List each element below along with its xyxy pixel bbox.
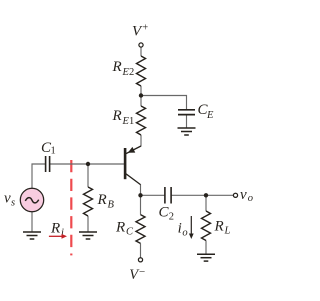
- svg-text:o: o: [248, 193, 253, 204]
- resistor RE2: [137, 56, 146, 86]
- wire RE2 to node: [140, 86, 142, 96]
- svg-text:R: R: [112, 108, 122, 124]
- label Ri: [50, 221, 64, 239]
- svg-text:R: R: [97, 192, 107, 208]
- label vs: [4, 191, 15, 209]
- resistor RC: [136, 215, 145, 244]
- resistor RE1: [137, 106, 146, 135]
- svg-text:E: E: [206, 110, 214, 121]
- wire node to vo terminal: [206, 194, 233, 196]
- svg-text:V: V: [132, 24, 143, 40]
- wire node to RL: [205, 195, 207, 211]
- capacitor C2: [165, 187, 171, 204]
- label vo: [240, 187, 253, 204]
- node junction C2/RL/vo: [204, 193, 208, 197]
- node junction RE2/RE1/CE: [139, 93, 143, 97]
- wire collector node to RC: [140, 195, 142, 214]
- label C1: [41, 140, 56, 157]
- svg-text:2: 2: [129, 67, 134, 78]
- svg-text:R: R: [112, 59, 122, 75]
- label V+: [132, 23, 149, 40]
- label io: [178, 221, 188, 239]
- wire RE1 to emitter: [140, 135, 142, 146]
- label RE1: [112, 108, 135, 127]
- transistor Q1 emitter lead: [126, 146, 141, 154]
- svg-text:1: 1: [129, 116, 134, 127]
- svg-text:B: B: [108, 200, 115, 211]
- sine wave in source: [25, 198, 38, 203]
- ground (RB): [79, 232, 97, 239]
- svg-text:2: 2: [169, 211, 174, 222]
- capacitor CE: [178, 110, 195, 115]
- label V-: [129, 266, 145, 283]
- terminal V-: [138, 258, 142, 262]
- wire collector to node: [140, 184, 142, 195]
- svg-text:−: −: [139, 266, 145, 278]
- svg-text:R: R: [214, 218, 224, 234]
- label RB: [97, 192, 115, 211]
- transistor Q1 base bar: [124, 148, 127, 179]
- io arrow: [190, 216, 192, 235]
- wire source to C1: [32, 164, 45, 188]
- svg-text:i: i: [178, 221, 182, 237]
- svg-text:o: o: [182, 228, 187, 239]
- ground (RL): [197, 254, 215, 261]
- svg-text:L: L: [224, 225, 231, 236]
- svg-text:v: v: [4, 191, 11, 207]
- ground (vs): [23, 232, 41, 239]
- wire RB to ground: [87, 216, 89, 232]
- resistor RB: [84, 187, 93, 216]
- svg-text:1: 1: [51, 145, 56, 156]
- node junction collector/RC/C2: [138, 193, 142, 197]
- svg-text:s: s: [11, 198, 15, 209]
- svg-text:C: C: [126, 226, 134, 237]
- node junction base/RB: [86, 162, 90, 166]
- capacitor C1: [46, 156, 50, 172]
- resistor RL: [202, 211, 211, 241]
- label C2: [159, 205, 175, 223]
- Ri boundary dashed line: [70, 160, 72, 255]
- wire node to RE1: [140, 96, 142, 107]
- wire collector node to C2: [141, 194, 165, 196]
- wire node to RB: [87, 164, 89, 187]
- source vs: [20, 188, 43, 211]
- wire RC to V- terminal: [140, 243, 142, 257]
- svg-text:v: v: [240, 187, 247, 203]
- wire C2 to output node: [171, 194, 206, 196]
- label RL: [214, 218, 231, 236]
- wire vs to ground: [31, 212, 33, 232]
- svg-text:R: R: [115, 219, 125, 235]
- label RC: [115, 219, 134, 237]
- wire node to CE: [141, 96, 187, 110]
- label RE2: [112, 59, 135, 78]
- wire RL to ground: [205, 241, 207, 255]
- terminal vo: [233, 193, 237, 197]
- svg-text:R: R: [50, 221, 60, 237]
- wire V+ to RE2: [140, 47, 142, 56]
- transistor Q1 collector lead: [126, 174, 141, 185]
- emitter arrow (PNP): [128, 147, 136, 153]
- wire CE to ground: [186, 115, 188, 128]
- label CE: [198, 102, 215, 121]
- base wire: [50, 163, 124, 165]
- svg-text:+: +: [143, 23, 149, 34]
- ground (CE): [178, 128, 196, 135]
- arrow Ri: [49, 234, 67, 239]
- terminal V+: [139, 43, 143, 47]
